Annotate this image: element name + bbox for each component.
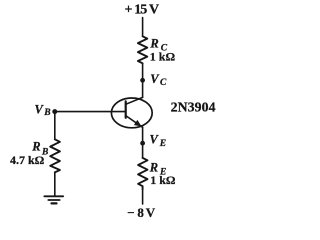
wire: RE bottom to -8V supply (142, 189, 144, 204)
emitter arrowhead (134, 120, 141, 126)
svg-text:R: R (31, 140, 40, 154)
wire: base from node VB to transistor (55, 111, 126, 113)
resistor RC (1 kOhm) zigzag (138, 36, 147, 63)
wire: +15V supply to RC top (142, 18, 144, 37)
transistor Q1 2N3904 body circle (111, 98, 152, 128)
transistor base bar (125, 101, 127, 117)
svg-text:1 kΩ: 1 kΩ (150, 173, 176, 187)
resistor RE (1 kOhm) zigzag (138, 158, 147, 189)
svg-text:B: B (43, 108, 50, 118)
svg-text:1 kΩ: 1 kΩ (150, 50, 176, 64)
svg-text:4.7 kΩ: 4.7 kΩ (10, 153, 45, 167)
wire: RC bottom to collector, through node VC (142, 63, 144, 97)
node VC junction dot (140, 78, 145, 83)
transistor emitter lead (126, 116, 143, 128)
svg-text:15: 15 (134, 2, 147, 17)
resistor RB (4.7 kOhm) zigzag (50, 139, 60, 172)
ground symbol (44, 195, 63, 197)
svg-text:E: E (159, 139, 166, 149)
svg-text:8: 8 (137, 205, 144, 220)
svg-text:−: − (127, 205, 134, 220)
wire: emitter down to RE top, through node VE (142, 127, 144, 158)
svg-text:+: + (125, 2, 133, 17)
node VB junction dot (52, 109, 57, 114)
svg-text:2N3904: 2N3904 (171, 99, 216, 114)
wire: RB bottom to ground (54, 172, 56, 195)
svg-text:V: V (149, 2, 159, 17)
svg-text:C: C (160, 78, 167, 88)
transistor collector lead (126, 97, 143, 104)
svg-text:R: R (149, 160, 158, 174)
svg-text:V: V (146, 205, 156, 220)
node VE junction dot (140, 141, 145, 146)
wire: VB node down to RB top (54, 112, 56, 140)
